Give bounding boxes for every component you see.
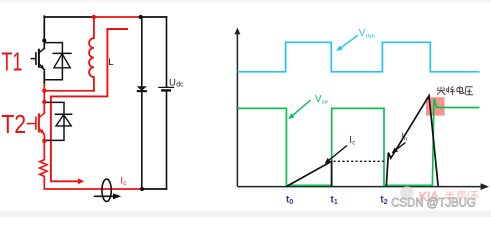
svg-text:c: c — [352, 140, 355, 146]
svg-text:INh: INh — [366, 34, 375, 40]
svg-text:0: 0 — [289, 199, 293, 206]
svg-text:U: U — [169, 77, 176, 88]
svg-text:rr: rr — [404, 137, 408, 143]
svg-text:CSDN @TJBUG: CSDN @TJBUG — [391, 196, 476, 210]
svg-text:L: L — [108, 57, 113, 68]
svg-text:1: 1 — [334, 199, 338, 206]
svg-text:T2: T2 — [1, 109, 26, 139]
svg-text:2: 2 — [384, 199, 388, 206]
svg-text:dc: dc — [176, 82, 184, 89]
svg-text:ce: ce — [322, 100, 328, 106]
svg-text:T1: T1 — [1, 47, 22, 77]
svg-text:V: V — [359, 28, 366, 39]
